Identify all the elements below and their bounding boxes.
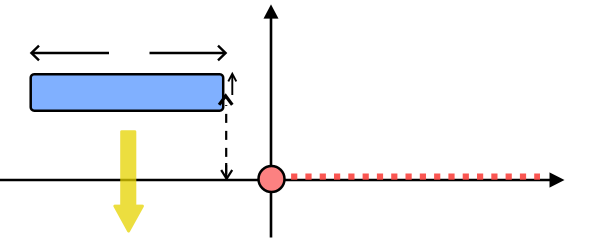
impulse arrow (yellow, translucent) — [115, 132, 142, 231]
bar (blue rectangle) — [31, 74, 224, 111]
particle (red circle at origin) — [259, 166, 285, 192]
x-axis — [0, 172, 565, 187]
dashed height line with arrowheads — [219, 96, 232, 179]
y-axis — [264, 4, 279, 237]
small up arrow (at bar top-right) — [228, 74, 236, 95]
arrow left (above bar) — [31, 46, 109, 61]
arrow right (above bar) — [150, 46, 226, 61]
trajectory (red dashed along +x) — [291, 174, 540, 180]
